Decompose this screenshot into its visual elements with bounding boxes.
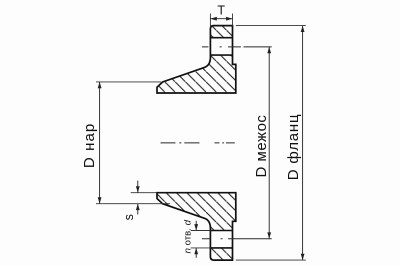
svg-text:D нар: D нар	[81, 123, 98, 168]
dimension s top arrow	[137, 181, 139, 193]
D nar arrow top	[98, 82, 102, 88]
dimension T line	[210, 18, 232, 20]
dimension D mezhos line	[268, 47, 270, 239]
top bolt hole axis	[202, 46, 272, 48]
D nar arrow bottom	[98, 197, 102, 203]
T arrow right	[226, 17, 232, 21]
D mezhos arrow bottom	[267, 232, 271, 238]
extension line OD bottom (left)	[96, 203, 170, 205]
extension lines hole d (left)	[191, 231, 211, 248]
svg-text:D межос: D межос	[253, 115, 270, 178]
svg-text:n отв. d: n отв. d	[183, 219, 194, 253]
extension lines T	[210, 14, 232, 27]
dimension n otv d bottom arrow	[195, 248, 197, 258]
dimension D nar line	[99, 82, 101, 204]
T arrow left	[210, 17, 216, 21]
bottom bolt hole axis	[202, 238, 272, 240]
extension line flange top (right)	[236, 25, 306, 27]
svg-text:T: T	[217, 4, 225, 18]
dimension n otv d top arrow	[195, 221, 197, 231]
D mezhos arrow top	[267, 47, 271, 53]
dimension D flanc line	[302, 26, 304, 261]
extension line OD top (left)	[96, 81, 161, 83]
flange upper outline	[157, 26, 236, 93]
bolt hole top edges	[210, 38, 232, 55]
bolt hole bottom edges	[210, 231, 232, 248]
svg-text:D фланц: D фланц	[285, 114, 302, 181]
flange lower outline	[157, 193, 236, 260]
D flanc arrow bottom	[301, 254, 305, 260]
dimension s bottom arrow	[137, 204, 139, 215]
flange upper section (hatched)	[157, 26, 236, 93]
flange lower section (hatched)	[157, 193, 236, 260]
extension line bore bottom (left, for s)	[131, 192, 157, 194]
D flanc arrow top	[301, 26, 305, 32]
extension line flange bottom (right)	[236, 259, 306, 261]
main axis centerline	[161, 142, 235, 144]
svg-text:s: s	[122, 214, 136, 220]
